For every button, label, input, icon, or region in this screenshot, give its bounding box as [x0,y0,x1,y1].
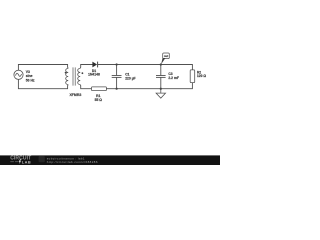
wire top primary [18,65,68,71]
transformer XFMR3 [66,67,81,85]
transformer secondary polarity dot [82,72,84,74]
junction C1 top node [116,63,118,65]
wire diode to R2 corner [98,65,193,70]
svg-text:120 Ω: 120 Ω [197,74,207,78]
label C3 [168,72,179,80]
label V3 [26,70,35,83]
wire bottom primary [18,79,68,88]
capacitor C1 [112,76,122,78]
wire secondary top to diode [80,65,92,69]
resistor R1 [92,87,107,91]
transformer primary polarity dot [65,72,67,74]
wire C3 branch [160,65,162,89]
svg-text:out: out [164,54,168,58]
label C1 [125,73,135,81]
watermark logo LAB row [10,156,45,164]
svg-text:220 µF: 220 µF [125,77,135,81]
svg-text:50 Hz: 50 Hz [26,79,35,83]
svg-text:XFMR3: XFMR3 [69,93,81,97]
resistor R2 [190,70,195,83]
svg-text:sine: sine [26,74,33,78]
wire C1 branch [116,65,118,89]
watermark footer bar [0,155,220,165]
svg-text:55 Ω: 55 Ω [95,98,103,102]
svg-text:http://circuitlab.com/c/688286: http://circuitlab.com/c/688286 [47,160,98,164]
label R2 [197,71,207,79]
net flag out [161,53,169,65]
wire R1 to transformer bottom [80,85,91,89]
label D1 [88,69,100,76]
svg-text:2.2 mF: 2.2 mF [168,76,179,80]
diode D1 [92,62,97,68]
capacitor C3 [156,76,166,78]
watermark text [47,157,98,164]
svg-text:1N4148: 1N4148 [88,72,100,76]
voltage source V3 [14,70,23,79]
junction C1 bottom node [116,88,118,90]
ground [156,89,165,99]
wire R2 bottom [106,83,192,89]
svg-text:LAB: LAB [22,159,31,164]
junction node out [160,63,162,65]
label R1 [95,94,103,102]
junction ground node [160,88,162,90]
